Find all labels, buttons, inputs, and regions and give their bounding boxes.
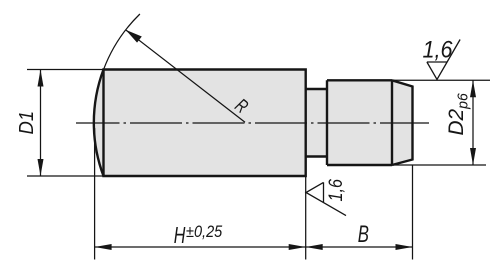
svg-text:D1: D1 xyxy=(15,111,38,135)
svg-text:H: H xyxy=(174,224,186,249)
svg-text:B: B xyxy=(358,221,369,248)
svg-text:1,6: 1,6 xyxy=(325,179,347,202)
svg-text:1,6: 1,6 xyxy=(423,35,453,62)
svg-text:±0,25: ±0,25 xyxy=(186,223,223,241)
svg-text:D2p6: D2p6 xyxy=(445,93,472,135)
